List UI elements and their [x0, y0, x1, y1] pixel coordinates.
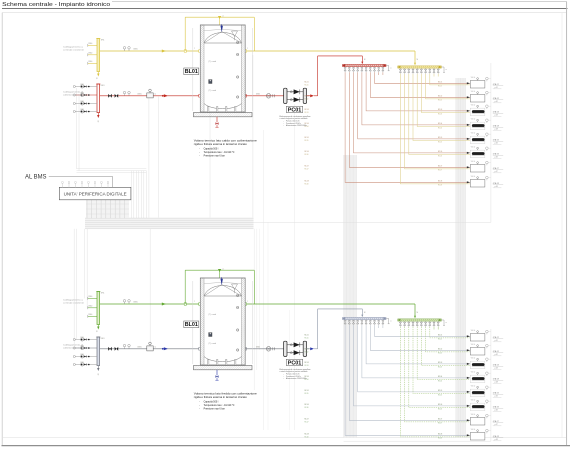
svg-text:MC.07: MC.07 — [305, 165, 309, 167]
terminal unit 1 label — [493, 336, 503, 342]
branch pipe labels row 3 — [305, 362, 443, 368]
terminal unit 1 label — [493, 83, 503, 89]
terminal unit 4 label — [493, 125, 503, 131]
svg-text:MC.05: MC.05 — [438, 137, 442, 139]
tank vent valve (top) — [221, 24, 223, 32]
tank port fittings on return line — [199, 348, 247, 351]
svg-text:Collegamento al: Collegamento al — [63, 344, 84, 347]
branch pipe labels row 3 — [305, 109, 443, 115]
svg-text:RC.08: RC.08 — [438, 438, 442, 440]
terminal unit 5 inlet arrow — [467, 391, 470, 393]
pipe: supply main from header to tank — [100, 302, 201, 306]
svg-text:RC.06: RC.06 — [438, 155, 442, 157]
svg-text:RC.05: RC.05 — [438, 394, 442, 396]
distribution manifold (pumped circuit) — [342, 317, 386, 320]
terminal unit 5 (fan-coil, filled) — [470, 386, 491, 397]
svg-text:RC.01: RC.01 — [305, 338, 309, 340]
tank electric actuator — [209, 80, 212, 84]
return stub with shutoff valve 1 — [73, 84, 97, 88]
tank description text — [194, 139, 258, 158]
pipe: supply main tank outlet to manifold — [245, 51, 418, 65]
svg-text:centrale esistente: centrale esistente — [63, 49, 85, 52]
svg-text:UTA 08: UTA 08 — [493, 182, 499, 185]
svg-text:MC.04: MC.04 — [305, 376, 309, 378]
return stub with shutoff valve 3 — [73, 101, 97, 105]
svg-text:RC.03: RC.03 — [438, 113, 442, 115]
svg-text:VSU 2v: VSU 2v — [471, 386, 476, 388]
svg-text:Schema centrale - Impianto idr: Schema centrale - Impianto idronico — [2, 2, 110, 8]
distribution manifold (pumped circuit) — [342, 64, 386, 67]
gauges on return main — [123, 91, 130, 95]
svg-text:RC.08: RC.08 — [305, 437, 309, 439]
svg-text:MC.05: MC.05 — [305, 390, 309, 392]
svg-text:VSU 2v: VSU 2v — [471, 344, 476, 346]
svg-text:MC.04: MC.04 — [305, 123, 309, 125]
terminal unit 6 inlet arrow — [467, 405, 470, 407]
svg-text:DN65: DN65 — [138, 346, 142, 348]
svg-text:DN65: DN65 — [134, 302, 138, 304]
svg-text:RC.07: RC.07 — [305, 169, 309, 171]
zone boundary lines (light) — [131, 63, 491, 441]
BMS wire bundle: horizontal run below peripheral unit — [85, 218, 254, 230]
svg-text:MC.04: MC.04 — [438, 123, 442, 125]
svg-text:Volano termico lato freddo con: Volano termico lato freddo con coibentaz… — [194, 392, 258, 396]
supply stub connection 1 — [88, 296, 97, 300]
distribution manifold (direct circuit) — [397, 66, 441, 69]
svg-text:02: 02 — [96, 374, 98, 376]
svg-text:DN65: DN65 — [138, 93, 142, 95]
svg-text:MC.03: MC.03 — [438, 109, 442, 111]
svg-text:MC.07: MC.07 — [438, 165, 442, 167]
svg-text:RF01: RF01 — [101, 338, 105, 340]
svg-text:UTA 08: UTA 08 — [493, 435, 499, 438]
terminal unit 5 (fan-coil, filled) — [470, 133, 491, 144]
tank label BL01 — [184, 321, 199, 328]
svg-text:RF01: RF01 — [101, 85, 105, 87]
svg-text:MC.02: MC.02 — [305, 95, 309, 97]
manifold outlet valves — [399, 68, 439, 74]
svg-text:RC.04: RC.04 — [438, 127, 442, 129]
BMS wire bundle: left riser group — [77, 169, 147, 219]
svg-text:VSU 2v: VSU 2v — [471, 147, 476, 149]
tank dimension lines — [191, 28, 253, 111]
svg-text:UTA 02: UTA 02 — [493, 350, 499, 353]
svg-text:VSU 2v: VSU 2v — [471, 176, 476, 178]
svg-text:UTA 03: UTA 03 — [493, 364, 499, 367]
tank support legs and base plate — [194, 360, 253, 370]
svg-text:UTA 02: UTA 02 — [493, 97, 499, 100]
branch pipe labels row 8 — [305, 180, 443, 186]
terminal unit 3 (fan-coil, filled) — [470, 105, 491, 116]
terminal unit 1 (AHU box) — [470, 330, 491, 341]
svg-text:Temperatura max.: -10/+90 °C: Temperatura max.: -10/+90 °C — [204, 404, 235, 407]
svg-text:RC.05: RC.05 — [305, 393, 309, 395]
tank label BL01 — [184, 68, 199, 75]
svg-text:(T) +mab: (T) +mab — [209, 343, 216, 345]
terminal unit 5 label — [493, 139, 503, 145]
svg-text:VSU 2v: VSU 2v — [471, 414, 476, 416]
return stub with shutoff valve 3 — [73, 354, 97, 358]
branch pipe labels row 7 — [305, 418, 443, 424]
terminal unit 6 label — [493, 406, 503, 412]
tank temperature sensor wells — [209, 294, 239, 351]
branch pipe labels row 1 — [305, 81, 443, 87]
tank port fittings on return line — [199, 95, 247, 98]
svg-text:VSU 2v: VSU 2v — [471, 330, 476, 332]
pipe: return main tank to pump — [245, 348, 283, 350]
BMS wires from hot-side field devices — [77, 55, 253, 218]
terminal unit 2 inlet arrow — [467, 96, 470, 98]
svg-text:Temperatura max.: -10/+90 °C: Temperatura max.: -10/+90 °C — [204, 151, 235, 154]
terminal unit 8 inlet arrow — [467, 181, 470, 183]
cold tank drain valve — [215, 370, 218, 380]
terminal unit 1 inlet arrow — [467, 82, 470, 84]
terminal unit 7 label — [493, 420, 503, 426]
svg-text:VSU 2v: VSU 2v — [471, 358, 476, 360]
terminal unit 8 label — [493, 435, 503, 441]
svg-text:Volano termico lato caldo con: Volano termico lato caldo con coibentazi… — [194, 139, 258, 143]
svg-text:02: 02 — [96, 121, 98, 123]
terminal unit 7 (AHU box) — [470, 161, 491, 172]
manifold outlet valves — [344, 67, 384, 73]
svg-text:UTA 01: UTA 01 — [493, 83, 499, 86]
pump description text — [280, 368, 311, 380]
svg-text:BL01: BL01 — [185, 322, 198, 328]
svg-text:PC01: PC01 — [288, 107, 302, 113]
svg-text:DN50: DN50 — [88, 296, 92, 298]
terminal unit 3 inlet arrow — [467, 363, 470, 365]
svg-text:MC.01: MC.01 — [438, 334, 442, 336]
svg-text:DN50: DN50 — [88, 306, 92, 308]
svg-text:(T) +mab: (T) +mab — [209, 90, 216, 92]
return stub with shutoff valve 4 — [73, 362, 97, 366]
pump description text — [280, 115, 311, 127]
pipe: pump discharge riser to distribution manifold — [307, 56, 366, 97]
svg-text:VSU 2v: VSU 2v — [471, 77, 476, 79]
twin circulation pump PC01 — [284, 88, 307, 103]
svg-text:RC.04: RC.04 — [438, 380, 442, 382]
svg-text:DN50: DN50 — [88, 53, 92, 55]
branch pipe labels row 2 — [305, 348, 443, 354]
isolation valves on return main — [108, 347, 118, 351]
svg-text:BL01: BL01 — [185, 69, 198, 75]
return header manifold (left cluster) — [96, 337, 104, 375]
terminal unit 8 inlet arrow — [467, 434, 470, 436]
tank description text — [194, 392, 258, 411]
svg-text:(T) +mab: (T) +mab — [209, 314, 216, 316]
svg-text:RC.06: RC.06 — [305, 407, 309, 409]
terminal unit 2 label — [493, 350, 503, 356]
BMS wire trunk: central vertical bundle — [344, 155, 357, 438]
svg-text:RC.01: RC.01 — [438, 339, 442, 341]
terminal unit 3 inlet arrow — [467, 110, 470, 112]
svg-text:Pressione max 6 bar: Pressione max 6 bar — [204, 407, 225, 410]
terminal unit 1 inlet arrow — [467, 335, 470, 337]
branch pipe labels row 6 — [305, 151, 443, 157]
return stub with shutoff valve 4 — [73, 109, 97, 113]
svg-text:MC.02: MC.02 — [305, 348, 309, 350]
branch pipe labels row 7 — [305, 165, 443, 171]
svg-text:MC.03: MC.03 — [305, 109, 309, 111]
buffer tank BL01 shell — [200, 278, 245, 365]
svg-text:PC01: PC01 — [288, 360, 302, 366]
tank vent valve (top) — [221, 277, 223, 285]
pipe: supply bypass bridge over tank — [185, 15, 254, 51]
svg-text:Pressione max 6 bar: Pressione max 6 bar — [204, 154, 225, 157]
BMS wire trunk: right vertical bundle next to terminal units — [456, 78, 466, 438]
pump label PC01 — [286, 359, 302, 366]
isolation valves on return main — [108, 94, 118, 98]
svg-text:RC.02: RC.02 — [438, 353, 442, 355]
terminal unit 5 inlet arrow — [467, 138, 470, 140]
terminal unit 7 inlet arrow — [467, 419, 470, 421]
svg-text:RC.03: RC.03 — [305, 112, 309, 114]
svg-text:01: 01 — [95, 78, 97, 80]
svg-text:MC.06: MC.06 — [305, 404, 309, 406]
svg-text:MC.07: MC.07 — [438, 418, 442, 420]
manifold branch piping staircase — [400, 74, 470, 184]
pipe: return main from header to tank — [100, 93, 201, 97]
distribution manifold (direct circuit) — [397, 319, 441, 322]
supply stub connection 2 — [88, 306, 97, 310]
terminal unit 2 label — [493, 97, 503, 103]
return cluster label — [63, 344, 85, 350]
svg-text:UNITA' PERIFERICA DIGITALE: UNITA' PERIFERICA DIGITALE — [64, 191, 127, 196]
manifold end drain — [386, 319, 391, 324]
svg-text:UTA 04: UTA 04 — [493, 125, 499, 128]
terminal unit 7 (AHU box) — [470, 414, 491, 425]
svg-text:UTA 07: UTA 07 — [493, 167, 500, 170]
svg-text:MC.05: MC.05 — [438, 390, 442, 392]
terminal unit 7 label — [493, 167, 503, 173]
svg-text:MC.01: MC.01 — [305, 334, 309, 336]
svg-text:SF01: SF01 — [101, 40, 105, 42]
buffer tank BL01 shell — [200, 25, 245, 112]
svg-text:RC.05: RC.05 — [438, 141, 442, 143]
pipe: pump discharge riser to distribution manifold — [307, 309, 366, 350]
pipe: return main tank to pump — [245, 95, 283, 97]
svg-text:RC.04: RC.04 — [305, 126, 309, 128]
terminal unit 3 label — [493, 364, 503, 370]
svg-text:RC.02: RC.02 — [438, 100, 442, 102]
svg-text:VSU 2v: VSU 2v — [471, 429, 476, 431]
svg-text:UTA 03: UTA 03 — [493, 111, 499, 114]
branch pipe labels row 4 — [305, 376, 443, 382]
svg-text:UTA 07: UTA 07 — [493, 420, 500, 423]
energy meter on return main — [147, 342, 157, 351]
svg-text:Collegamento a: Collegamento a — [63, 46, 84, 49]
svg-text:VSU 2v: VSU 2v — [471, 105, 476, 107]
pipe: return main from header to tank — [100, 346, 201, 350]
terminal unit 7 inlet arrow — [467, 166, 470, 168]
hot tank drain valve — [215, 117, 218, 127]
svg-text:DN50: DN50 — [88, 314, 92, 316]
svg-text:MC.04: MC.04 — [438, 376, 442, 378]
svg-text:sv: sv — [222, 268, 224, 270]
svg-text:UTA 06: UTA 06 — [493, 406, 499, 409]
svg-text:01: 01 — [95, 331, 97, 333]
manifold end drain — [442, 320, 447, 325]
drawing title — [2, 2, 568, 9]
svg-text:RC.04: RC.04 — [305, 379, 309, 381]
svg-text:UTA 05: UTA 05 — [493, 139, 499, 142]
svg-text:RC.02: RC.02 — [305, 352, 309, 354]
svg-text:SF01: SF01 — [101, 293, 105, 295]
svg-text:MC.01: MC.01 — [305, 81, 309, 83]
return stub with shutoff valve 2 — [73, 92, 97, 96]
branch pipe labels row 5 — [305, 390, 443, 396]
return cluster label — [63, 91, 85, 97]
svg-text:MC.02: MC.02 — [438, 348, 442, 350]
svg-text:MC.01: MC.01 — [438, 81, 442, 83]
supply stub connection 1 — [88, 43, 97, 47]
text AL BMS — [25, 175, 113, 188]
svg-text:Collegamento a: Collegamento a — [63, 299, 84, 302]
svg-text:MC.08: MC.08 — [438, 180, 442, 182]
svg-text:VSU 2v: VSU 2v — [471, 400, 476, 402]
terminal unit 3 label — [493, 111, 503, 117]
svg-text:RC.06: RC.06 — [438, 408, 442, 410]
supply cluster label — [63, 299, 85, 305]
energy meter on return main — [147, 89, 157, 98]
manifold branch piping staircase — [400, 327, 470, 437]
gauges on supply main — [123, 47, 130, 51]
terminal unit 4 (fan-coil, filled) — [470, 119, 491, 130]
svg-text:RC.01: RC.01 — [305, 85, 309, 87]
svg-text:Capacità 500 l: Capacità 500 l — [204, 400, 219, 403]
svg-text:MC.08: MC.08 — [305, 180, 309, 182]
svg-text:collettore esistente: collettore esistente — [63, 94, 85, 97]
terminal unit 2 (AHU box) — [470, 91, 491, 102]
svg-text:RC.03: RC.03 — [305, 365, 309, 367]
svg-text:DN50: DN50 — [88, 61, 92, 63]
supply header manifold (left cluster) — [95, 292, 105, 333]
svg-text:RC.07: RC.07 — [305, 422, 309, 424]
tank electric actuator — [209, 333, 212, 337]
svg-text:MC.03: MC.03 — [438, 362, 442, 364]
svg-text:AL BMS: AL BMS — [25, 175, 47, 181]
svg-text:RC.02: RC.02 — [305, 99, 309, 101]
gauges on return main — [123, 344, 130, 348]
svg-text:MC.05: MC.05 — [305, 137, 309, 139]
svg-text:MC.06: MC.06 — [305, 151, 309, 153]
terminal unit 5 label — [493, 392, 503, 398]
terminal unit 8 label — [493, 182, 503, 188]
tank port fittings on supply line — [194, 300, 248, 305]
svg-text:Capacità 500 l: Capacità 500 l — [204, 147, 219, 150]
svg-text:MC.08: MC.08 — [438, 433, 442, 435]
supply stub connection 3 — [88, 314, 97, 318]
terminal unit 8 (AHU box) — [470, 429, 491, 440]
svg-text:VSU 2v: VSU 2v — [471, 372, 476, 374]
COLD SECTION (green/gray) — [63, 268, 503, 441]
svg-text:VSU 2v: VSU 2v — [471, 119, 476, 121]
return header manifold (left cluster) — [96, 84, 104, 122]
terminal unit 6 inlet arrow — [467, 152, 470, 154]
svg-text:RC.08: RC.08 — [305, 184, 309, 186]
svg-text:RC.01: RC.01 — [438, 86, 442, 88]
supply cluster label — [63, 46, 85, 52]
digital peripheral unit box — [59, 187, 131, 200]
svg-text:rigida e finitura esterna in l: rigida e finitura esterna in lamierino z… — [194, 395, 248, 399]
twin circulation pump PC01 — [284, 341, 307, 356]
gauges on supply main — [123, 300, 130, 304]
strainer on pump suction — [256, 93, 274, 98]
svg-text:DN65: DN65 — [256, 346, 260, 348]
BMS wires dropping from horizontal bundle to cold section — [254, 229, 259, 390]
svg-text:UTA 01: UTA 01 — [493, 336, 499, 339]
pipe: supply main tank outlet to manifold — [245, 304, 418, 318]
terminal unit 6 (fan-coil, filled) — [470, 400, 491, 411]
svg-text:(T) +mab: (T) +mab — [209, 61, 216, 63]
terminal unit 2 (AHU box) — [470, 344, 491, 355]
svg-text:UTA 04: UTA 04 — [493, 378, 499, 381]
svg-text:DN65: DN65 — [134, 49, 138, 51]
manifold outlet valves — [399, 321, 439, 327]
svg-text:MC.07: MC.07 — [305, 418, 309, 420]
svg-text:centrale esistente: centrale esistente — [63, 302, 85, 305]
terminal unit 4 label — [493, 378, 503, 384]
tank port fittings on supply line — [194, 47, 248, 52]
tank dome and internals — [204, 29, 242, 109]
BMS wires descending to cold section — [74, 104, 294, 430]
branch pipe labels row 8 — [305, 433, 443, 439]
svg-text:RC.05: RC.05 — [305, 140, 309, 142]
return stub with shutoff valve 1 — [73, 337, 97, 341]
terminal unit 6 label — [493, 153, 503, 159]
return stub with shutoff valve 2 — [73, 345, 97, 349]
svg-text:MC.02: MC.02 — [438, 95, 442, 97]
branch pipe labels row 2 — [305, 95, 443, 101]
terminal unit 8 (AHU box) — [470, 176, 491, 187]
terminal unit 4 (fan-coil, filled) — [470, 372, 491, 383]
svg-text:MC.06: MC.06 — [438, 151, 442, 153]
strainer on pump suction — [256, 346, 274, 351]
svg-text:VSU 2v: VSU 2v — [471, 91, 476, 93]
svg-text:sv: sv — [222, 15, 224, 17]
svg-text:Collegamento al: Collegamento al — [63, 91, 84, 94]
svg-text:UTA 06: UTA 06 — [493, 153, 499, 156]
manifold end drain — [386, 66, 391, 71]
svg-text:RC.06: RC.06 — [305, 154, 309, 156]
branch pipe labels row 6 — [305, 404, 443, 410]
tank dimension lines — [191, 281, 253, 364]
svg-text:RC.07: RC.07 — [438, 170, 442, 172]
svg-text:RC.07: RC.07 — [438, 423, 442, 425]
tank support legs and base plate — [194, 107, 253, 117]
tank temperature sensor wells — [209, 41, 239, 98]
branch pipe labels row 4 — [305, 123, 443, 129]
manifold branch piping staircase — [345, 72, 470, 182]
svg-text:VSU 2v: VSU 2v — [471, 133, 476, 135]
terminal unit 3 (fan-coil, filled) — [470, 358, 491, 369]
svg-text:MC.06: MC.06 — [438, 404, 442, 406]
terminal unit 4 inlet arrow — [467, 377, 470, 379]
pipe: supply main from header to tank — [100, 49, 201, 53]
manifold end drain — [442, 67, 447, 72]
svg-text:collettore esistente: collettore esistente — [63, 347, 85, 350]
svg-text:DN65: DN65 — [256, 93, 260, 95]
branch pipe labels row 1 — [305, 334, 443, 340]
supply stub connection 3 — [88, 61, 97, 65]
terminal unit 6 (fan-coil, filled) — [470, 147, 491, 158]
manifold outlet valves — [344, 320, 384, 326]
svg-text:RC.03: RC.03 — [438, 366, 442, 368]
supply header manifold (left cluster) — [95, 39, 105, 80]
terminal unit 2 inlet arrow — [467, 349, 470, 351]
tank dome and internals — [204, 282, 242, 362]
HOT SECTION (yellow/red) — [63, 15, 503, 188]
